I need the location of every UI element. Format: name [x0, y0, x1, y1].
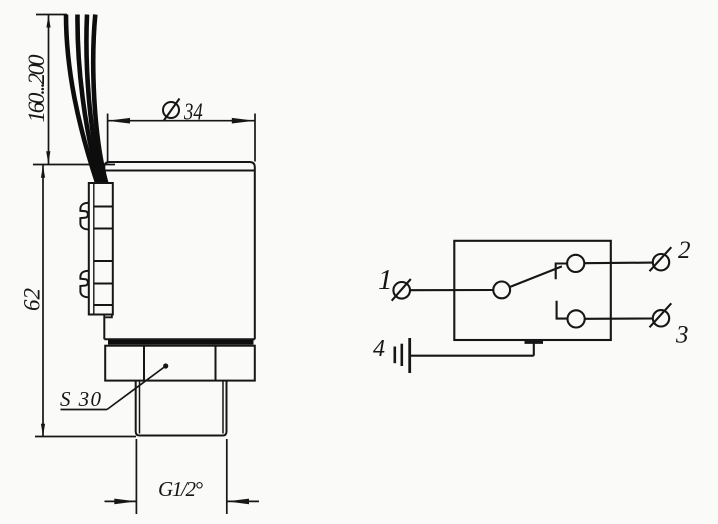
svg-text:160...200: 160...200	[24, 54, 49, 123]
svg-text:3: 3	[675, 322, 689, 349]
svg-text:S 30: S 30	[60, 387, 102, 411]
svg-text:4: 4	[373, 336, 385, 362]
svg-text:G1/2°: G1/2°	[158, 477, 204, 501]
svg-text:1: 1	[378, 264, 393, 296]
svg-text:62: 62	[20, 288, 45, 311]
svg-text:2: 2	[678, 237, 691, 264]
svg-text:34: 34	[183, 98, 203, 125]
